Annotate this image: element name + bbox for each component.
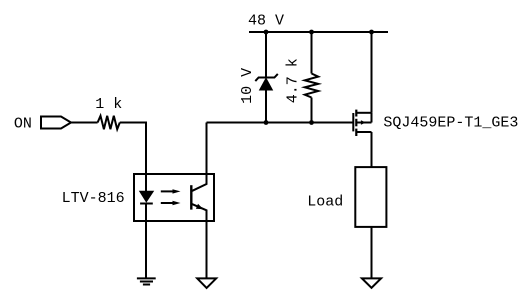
opto phototransistor collector bbox=[192, 123, 207, 192]
wire zener anode to gate net bbox=[265, 90, 267, 123]
wire 48V rail bbox=[249, 31, 388, 33]
svg-text:Load: Load bbox=[307, 193, 343, 210]
input flag ON bbox=[41, 117, 71, 129]
wire mosfet source to load bbox=[371, 132, 373, 167]
wire load to ground bbox=[371, 227, 373, 279]
wire resistor R1 to opto anode bbox=[120, 123, 146, 175]
opto phototransistor emitter bbox=[192, 204, 207, 279]
ground GND2 arrow bbox=[197, 278, 216, 288]
ground GND1 earth bbox=[137, 278, 156, 284]
optocoupler U1 box bbox=[134, 174, 214, 221]
wire gate net horizontal bbox=[207, 122, 354, 124]
junction dot gate/resistor bbox=[309, 120, 314, 125]
resistor R2 4.7k bbox=[305, 74, 318, 98]
light arrow upper bbox=[161, 189, 181, 193]
wire rail to zener cathode bbox=[265, 32, 267, 78]
svg-text:48 V: 48 V bbox=[248, 13, 284, 30]
emitter arrowhead bbox=[196, 204, 204, 209]
wire resistor R2 to gate net bbox=[311, 98, 313, 123]
opto LED bbox=[140, 191, 154, 203]
svg-text:SQJ459EP-T1_GE3: SQJ459EP-T1_GE3 bbox=[383, 114, 518, 131]
MOSFET Q1 bbox=[353, 110, 371, 136]
light arrow lower bbox=[161, 201, 181, 205]
junction dot rail/resistor bbox=[309, 30, 314, 35]
load box bbox=[355, 167, 386, 227]
resistor R1 1k bbox=[98, 116, 120, 129]
junction dot rail/zener bbox=[264, 30, 269, 35]
svg-text:10 V: 10 V bbox=[239, 68, 256, 104]
svg-text:1 k: 1 k bbox=[95, 96, 122, 113]
wire flag to resistor R1 bbox=[71, 122, 98, 124]
opto phototransistor base bar bbox=[190, 185, 192, 209]
junction dot gate/zener bbox=[264, 120, 269, 125]
wire mosfet drain to rail bbox=[371, 32, 373, 113]
opto LED anode wire bbox=[145, 174, 147, 191]
svg-text:ON: ON bbox=[14, 116, 32, 133]
wire rail to resistor R2 bbox=[311, 32, 313, 74]
wire LED cathode to ground bbox=[145, 204, 147, 279]
junction dot rail/mosfet bbox=[369, 30, 374, 35]
svg-text:4.7 k: 4.7 k bbox=[284, 58, 301, 103]
svg-text:LTV-816: LTV-816 bbox=[62, 190, 125, 207]
ground GND3 arrow bbox=[362, 278, 381, 287]
zener diode D1 bbox=[255, 74, 277, 90]
